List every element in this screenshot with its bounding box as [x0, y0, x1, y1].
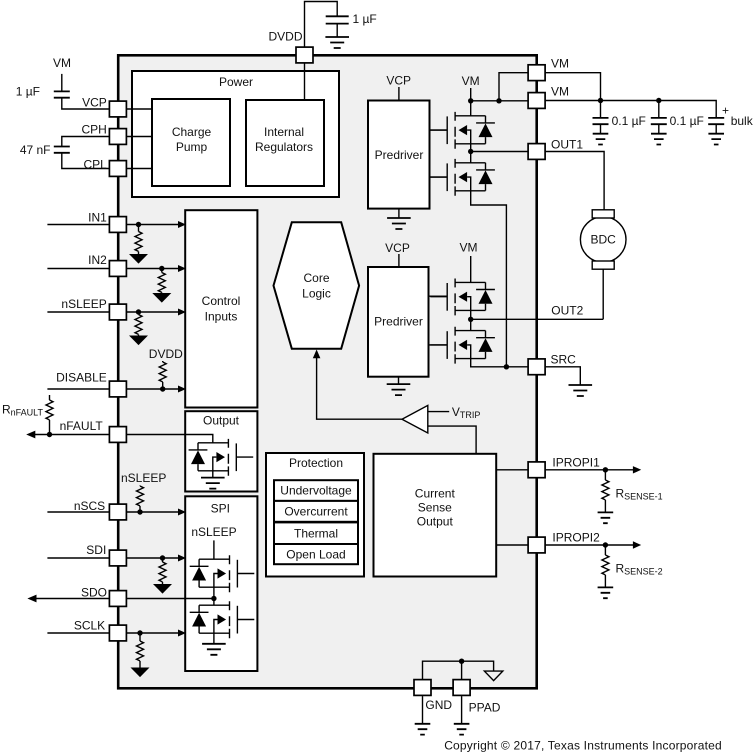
pin VM 1 — [528, 65, 545, 81]
logic-low arrow (IN1) — [129, 254, 148, 264]
ground (C4) — [593, 134, 609, 145]
wire IN1 input — [47, 224, 109, 226]
wire PPAD stem to rail — [461, 661, 463, 679]
SPI block — [185, 496, 257, 671]
capacitor C3 1uF (DVDD) — [326, 16, 349, 23]
node OUT2 junction — [468, 317, 473, 322]
ground (Predriver U3) — [387, 384, 411, 395]
wire Q4 source to SRC pin — [471, 359, 528, 367]
wire VCP to Predriver U3 — [398, 254, 400, 267]
pin SDO — [109, 591, 126, 607]
pin IN2 — [109, 261, 126, 277]
signal-ground open triangle — [484, 671, 502, 681]
pin DVDD — [296, 47, 313, 63]
transistor Q5 Output open-drain FET — [189, 439, 254, 476]
pin IPROPI1 — [528, 462, 545, 478]
ground (C3) — [325, 37, 349, 48]
svg-text:SCLK: SCLK — [74, 618, 105, 632]
wire VM rail half-bridge 1 — [471, 100, 528, 102]
arrow into SPI (nSCS) — [178, 509, 186, 516]
resistor R4 DVDD pullup on DISABLE — [162, 361, 164, 362]
svg-text:RSENSE-2: RSENSE-2 — [616, 562, 663, 577]
ground (SRC) — [569, 385, 593, 396]
Internal Regulators block — [246, 100, 324, 186]
svg-text:nSLEEP: nSLEEP — [191, 525, 236, 539]
wire Q1 drain from rail — [470, 101, 472, 116]
resistor R5 nSLEEP pullup on nSCS — [139, 485, 141, 488]
wire Current Sense Output to IPROPI1 pin — [496, 469, 527, 471]
arrow into Control Inputs (IN2) — [178, 265, 186, 272]
arrow into SPI (SDI) — [178, 555, 186, 562]
wire VM top-left to C1 — [61, 74, 63, 92]
wire motor to OUT2 — [602, 269, 604, 319]
svg-text:VM: VM — [551, 57, 569, 71]
pin CPH — [109, 129, 126, 145]
pin SDI — [109, 550, 126, 566]
wire C3 to ground — [336, 24, 338, 37]
ground (RSENSE-1) — [598, 512, 614, 523]
svg-text:+: + — [722, 104, 729, 118]
arrow into Control Inputs (IN1) — [178, 221, 186, 228]
resistor R1 IN1 pulldown — [138, 225, 140, 232]
arrow out IPROPI1 — [633, 466, 641, 473]
wire VCP pin to Charge Pump — [127, 108, 152, 110]
svg-text:bulk: bulk — [731, 114, 753, 128]
logic-low arrow (IN2) — [152, 293, 171, 303]
svg-text:OUT1: OUT1 — [551, 138, 583, 152]
wire nSCS input — [47, 511, 109, 513]
svg-text:SPI: SPI — [211, 502, 230, 516]
wire IN1 pin to Control Inputs — [127, 224, 179, 226]
node SCLK junction — [137, 630, 142, 635]
pin nFAULT — [109, 427, 126, 443]
svg-text:DVDD: DVDD — [149, 347, 183, 361]
node VM rail junction 1 — [468, 98, 473, 103]
Undervoltage box — [274, 480, 358, 501]
svg-text:GND: GND — [425, 698, 452, 712]
svg-text:CPL: CPL — [83, 157, 107, 171]
svg-text:IN2: IN2 — [88, 253, 107, 267]
node SDI junction — [160, 555, 165, 560]
wire Current Sense Output to IPROPI2 pin — [496, 544, 527, 546]
svg-text:Logic: Logic — [302, 287, 331, 301]
ground (RSENSE-2) — [598, 587, 614, 598]
pin SCLK — [109, 625, 126, 641]
svg-text:PPAD: PPAD — [469, 701, 501, 715]
node IN2 junction — [159, 266, 164, 271]
wire nFAULT pin to Output FET drain — [127, 435, 213, 443]
wire SRC pin to ground — [546, 367, 581, 385]
arrow into Control Inputs (nSLEEP) — [178, 309, 186, 316]
wire DVDD pin to C3 — [305, 2, 338, 47]
node OUT1 junction — [468, 149, 473, 154]
svg-text:SDI: SDI — [86, 543, 106, 557]
capacitor C5 0.1uF — [651, 118, 667, 124]
wire VM label to half-bridge 1 rail — [470, 88, 472, 101]
svg-text:VM: VM — [460, 241, 478, 255]
comparator U4 (current trip) — [402, 405, 428, 433]
wire C5 stem — [658, 101, 660, 118]
svg-text:CPH: CPH — [81, 123, 106, 137]
arrow into Control Inputs (DISABLE) — [178, 386, 186, 393]
svg-text:Internal: Internal — [264, 125, 304, 139]
wire OUT2 to motor — [471, 318, 604, 320]
node VM bus junction 1 — [598, 98, 603, 103]
svg-text:nFAULT: nFAULT — [60, 419, 104, 433]
wire Predriver U3 to ground — [398, 377, 400, 384]
ground (GND pin) — [415, 724, 431, 735]
svg-text:Core: Core — [303, 271, 329, 285]
motor M1 BDC — [580, 217, 626, 263]
wire C2 to CPL pin — [62, 153, 109, 169]
node VM bus junction 2 — [656, 98, 661, 103]
svg-text:IN1: IN1 — [88, 211, 107, 225]
wire OUT1 node to OUT1 pin — [471, 151, 528, 153]
pin IN1 — [109, 217, 126, 233]
chip body U1 DRV870x — [118, 55, 537, 688]
wire nSLEEP pin to Control Inputs — [127, 311, 179, 313]
transistor Q7 SPI lower FET — [190, 601, 255, 638]
Thermal box — [274, 522, 358, 544]
node IN1 junction — [136, 222, 141, 227]
wire nFAULT external — [33, 434, 109, 436]
Open Load box — [274, 544, 358, 564]
node DISABLE junction — [160, 386, 165, 391]
wire DISABLE input — [47, 388, 109, 390]
node IPROPI2 junction — [603, 542, 608, 547]
svg-text:BDC: BDC — [591, 233, 617, 247]
wire comparator output to Core Logic — [317, 356, 402, 419]
ground (C6) — [708, 134, 724, 145]
transistor Q1 high-side FET OUT1 — [430, 112, 495, 149]
resistor RSENSE-1 — [604, 470, 606, 480]
wire Predriver U2 to Q2 gate — [430, 176, 448, 178]
node nFAULT junction — [47, 432, 52, 437]
svg-text:Undervoltage: Undervoltage — [280, 484, 352, 498]
Charge Pump block — [152, 99, 230, 186]
node nSLEEP junction — [136, 309, 141, 314]
svg-text:DVDD: DVDD — [268, 30, 302, 44]
wire IN2 pin to Control Inputs — [127, 268, 179, 270]
svg-text:DISABLE: DISABLE — [56, 371, 107, 385]
svg-text:Open Load: Open Load — [286, 547, 345, 561]
pin nSCS — [109, 504, 126, 520]
svg-text:VM: VM — [462, 74, 480, 88]
wire SDO pin to SPI FET node — [127, 598, 214, 600]
svg-text:OUT2: OUT2 — [551, 304, 583, 318]
wire OUT2 node — [470, 310, 472, 330]
Protection block — [266, 453, 364, 577]
wire Q7 source to ground — [213, 633, 215, 644]
Overcurrent box — [274, 501, 358, 522]
capacitor C1 1uF (VCP) — [54, 91, 70, 97]
arrow out nFAULT — [26, 431, 35, 439]
wire SDI pin to SPI — [127, 557, 179, 559]
Core Logic hexagon — [274, 222, 360, 348]
wire IPROPI2 output — [546, 544, 634, 546]
wire nSLEEP input — [47, 311, 109, 313]
wire IPROPI1 output — [546, 469, 634, 471]
pin VCP — [109, 101, 126, 117]
wire OUT1 node — [470, 144, 472, 163]
ground (Q7 source) — [202, 644, 226, 655]
capacitor C2 47nF (CPH-CPL) — [54, 147, 70, 153]
logic-low arrow (SCLK) — [131, 668, 150, 678]
svg-text:Regulators: Regulators — [255, 140, 313, 154]
node GND rail junction — [459, 659, 464, 664]
node SDO internal junction — [211, 596, 216, 601]
wire IN2 input — [47, 268, 109, 270]
svg-text:Overcurrent: Overcurrent — [284, 505, 348, 519]
wire CPH pin to C2 — [62, 137, 109, 147]
Control Inputs block — [185, 210, 257, 407]
svg-text:nSLEEP: nSLEEP — [121, 471, 166, 485]
arrow out SDO — [27, 595, 36, 603]
svg-text:SDO: SDO — [81, 585, 107, 599]
svg-text:RSENSE-1: RSENSE-1 — [616, 487, 663, 502]
node VM rail junction 2 — [496, 98, 501, 103]
node nSCS junction — [137, 509, 142, 514]
svg-text:Predriver: Predriver — [375, 148, 424, 162]
Current Sense Output block — [374, 454, 497, 577]
wire C6 to ground — [715, 124, 717, 134]
node SRC junction — [504, 364, 509, 369]
pin GND — [414, 680, 431, 696]
svg-text:Predriver: Predriver — [374, 315, 423, 329]
wire GND pin to ground — [422, 696, 424, 724]
wire VM pin1 riser — [499, 73, 528, 101]
Power block — [132, 71, 339, 197]
svg-text:VCP: VCP — [82, 96, 107, 110]
pin PPAD — [453, 680, 470, 696]
resistor R7 SCLK pulldown — [139, 633, 141, 641]
Predriver U2 block — [368, 101, 430, 209]
svg-text:VCP: VCP — [386, 74, 411, 88]
wire Predriver U3 to Q4 gate — [429, 344, 448, 346]
wire Q2 source to SRC bus — [471, 191, 507, 367]
capacitor C4 0.1uF — [593, 118, 609, 124]
svg-text:RnFAULT: RnFAULT — [2, 403, 44, 418]
capacitor C6 bulk — [708, 118, 724, 124]
transistor Q6 SPI upper FET — [190, 555, 255, 592]
ground (Q5 source) — [201, 478, 225, 489]
svg-text:0.1 µF: 0.1 µF — [612, 114, 646, 128]
Predriver U3 block — [368, 267, 429, 377]
wire Predriver U2 to ground — [398, 209, 400, 218]
logic-low arrow (SDI) — [153, 584, 172, 594]
svg-text:Output: Output — [203, 413, 240, 427]
svg-text:IPROPI1: IPROPI1 — [552, 455, 600, 469]
node IPROPI1 junction — [603, 467, 608, 472]
resistor R3 nSLEEP pulldown — [138, 312, 140, 315]
wire OUT1 pin to motor — [546, 152, 605, 210]
wire C5 to ground — [658, 124, 660, 134]
wire SDO external — [34, 598, 109, 600]
ground (C5) — [651, 134, 667, 145]
pin DISABLE — [109, 381, 126, 397]
pin OUT1 — [528, 144, 545, 160]
wire nSCS pin to SPI — [127, 511, 179, 513]
ground (PPAD pin) — [454, 724, 470, 735]
wire nSLEEP stem in SPI block — [213, 540, 215, 559]
svg-text:Output: Output — [417, 514, 454, 528]
svg-text:Pump: Pump — [176, 140, 208, 154]
ground (Predriver U2) — [387, 218, 411, 229]
svg-text:Inputs: Inputs — [205, 309, 238, 323]
svg-text:Current: Current — [415, 486, 456, 500]
svg-text:nSLEEP: nSLEEP — [61, 297, 106, 311]
arrow out IPROPI2 — [633, 541, 641, 548]
pin nSLEEP — [109, 304, 126, 320]
svg-text:Copyright © 2017, Texas Instru: Copyright © 2017, Texas Instruments Inco… — [444, 738, 722, 752]
arrow into Core Logic — [313, 350, 321, 359]
resistor R2 IN2 pulldown — [161, 269, 163, 273]
wire VM1 pin to bus — [546, 73, 601, 101]
transistor Q4 low-side FET OUT2 — [430, 327, 495, 364]
svg-text:Power: Power — [219, 75, 253, 89]
svg-text:Thermal: Thermal — [294, 526, 338, 540]
wire DISABLE pin to Control Inputs — [127, 388, 179, 390]
svg-text:VM: VM — [53, 56, 71, 70]
svg-text:Protection: Protection — [289, 456, 343, 470]
wire comparator tap to Current Sense Output — [428, 426, 476, 454]
wire Q6 source to Q7 drain — [213, 587, 215, 605]
wire CPL pin to Charge Pump — [127, 168, 152, 170]
wire VCP to Predriver U2 — [398, 87, 400, 101]
svg-text:1 µF: 1 µF — [353, 12, 377, 26]
wire Predriver U3 to Q3 gate — [429, 295, 448, 297]
logic-low arrow (nSLEEP) — [129, 336, 148, 346]
wire Q5 source to ground — [212, 471, 214, 478]
pin CPL — [109, 161, 126, 177]
svg-text:1 µF: 1 µF — [16, 84, 40, 98]
svg-text:0.1 µF: 0.1 µF — [670, 114, 704, 128]
pin IPROPI2 — [528, 537, 545, 553]
svg-text:IPROPI2: IPROPI2 — [552, 531, 600, 545]
resistor RnFAULT pullup — [49, 395, 51, 400]
svg-text:Sense: Sense — [418, 500, 452, 514]
arrow into SPI (SCLK) — [178, 630, 186, 637]
wire C4 to ground — [600, 124, 602, 134]
wire GND/PPAD tie rail — [423, 661, 494, 679]
svg-text:Control: Control — [202, 294, 241, 308]
wire C1 to VCP pin — [62, 98, 109, 109]
wire SCLK pin to SPI — [127, 632, 179, 634]
wire DVDD pin to Internal Regulators — [304, 64, 306, 101]
transistor Q2 low-side FET OUT1 — [430, 159, 495, 196]
pin SRC — [528, 359, 545, 375]
wire PPAD pin to ground — [461, 696, 463, 724]
svg-text:47 nF: 47 nF — [20, 143, 51, 157]
svg-text:SRC: SRC — [551, 352, 577, 366]
wire VTRIP input — [428, 411, 449, 413]
resistor RSENSE-2 — [604, 545, 606, 555]
wire VM label to Q3 drain — [470, 256, 472, 282]
wire SCLK input — [47, 632, 109, 634]
resistor R6 SDI pulldown — [162, 558, 164, 562]
svg-text:VCP: VCP — [385, 241, 410, 255]
svg-text:nSCS: nSCS — [74, 499, 105, 513]
Output block — [185, 411, 257, 491]
wire Predriver U2 to Q1 gate — [430, 129, 448, 131]
transistor Q3 high-side FET OUT2 — [430, 279, 495, 316]
wire VM2 pin to bulk cap — [546, 101, 717, 118]
svg-text:Charge: Charge — [172, 125, 212, 139]
wire C4 stem — [600, 101, 602, 118]
svg-text:VM: VM — [551, 85, 569, 99]
pin VM 2 — [528, 93, 545, 109]
wire CPH pin to Charge Pump — [127, 136, 152, 138]
wire SDI input — [47, 557, 109, 559]
